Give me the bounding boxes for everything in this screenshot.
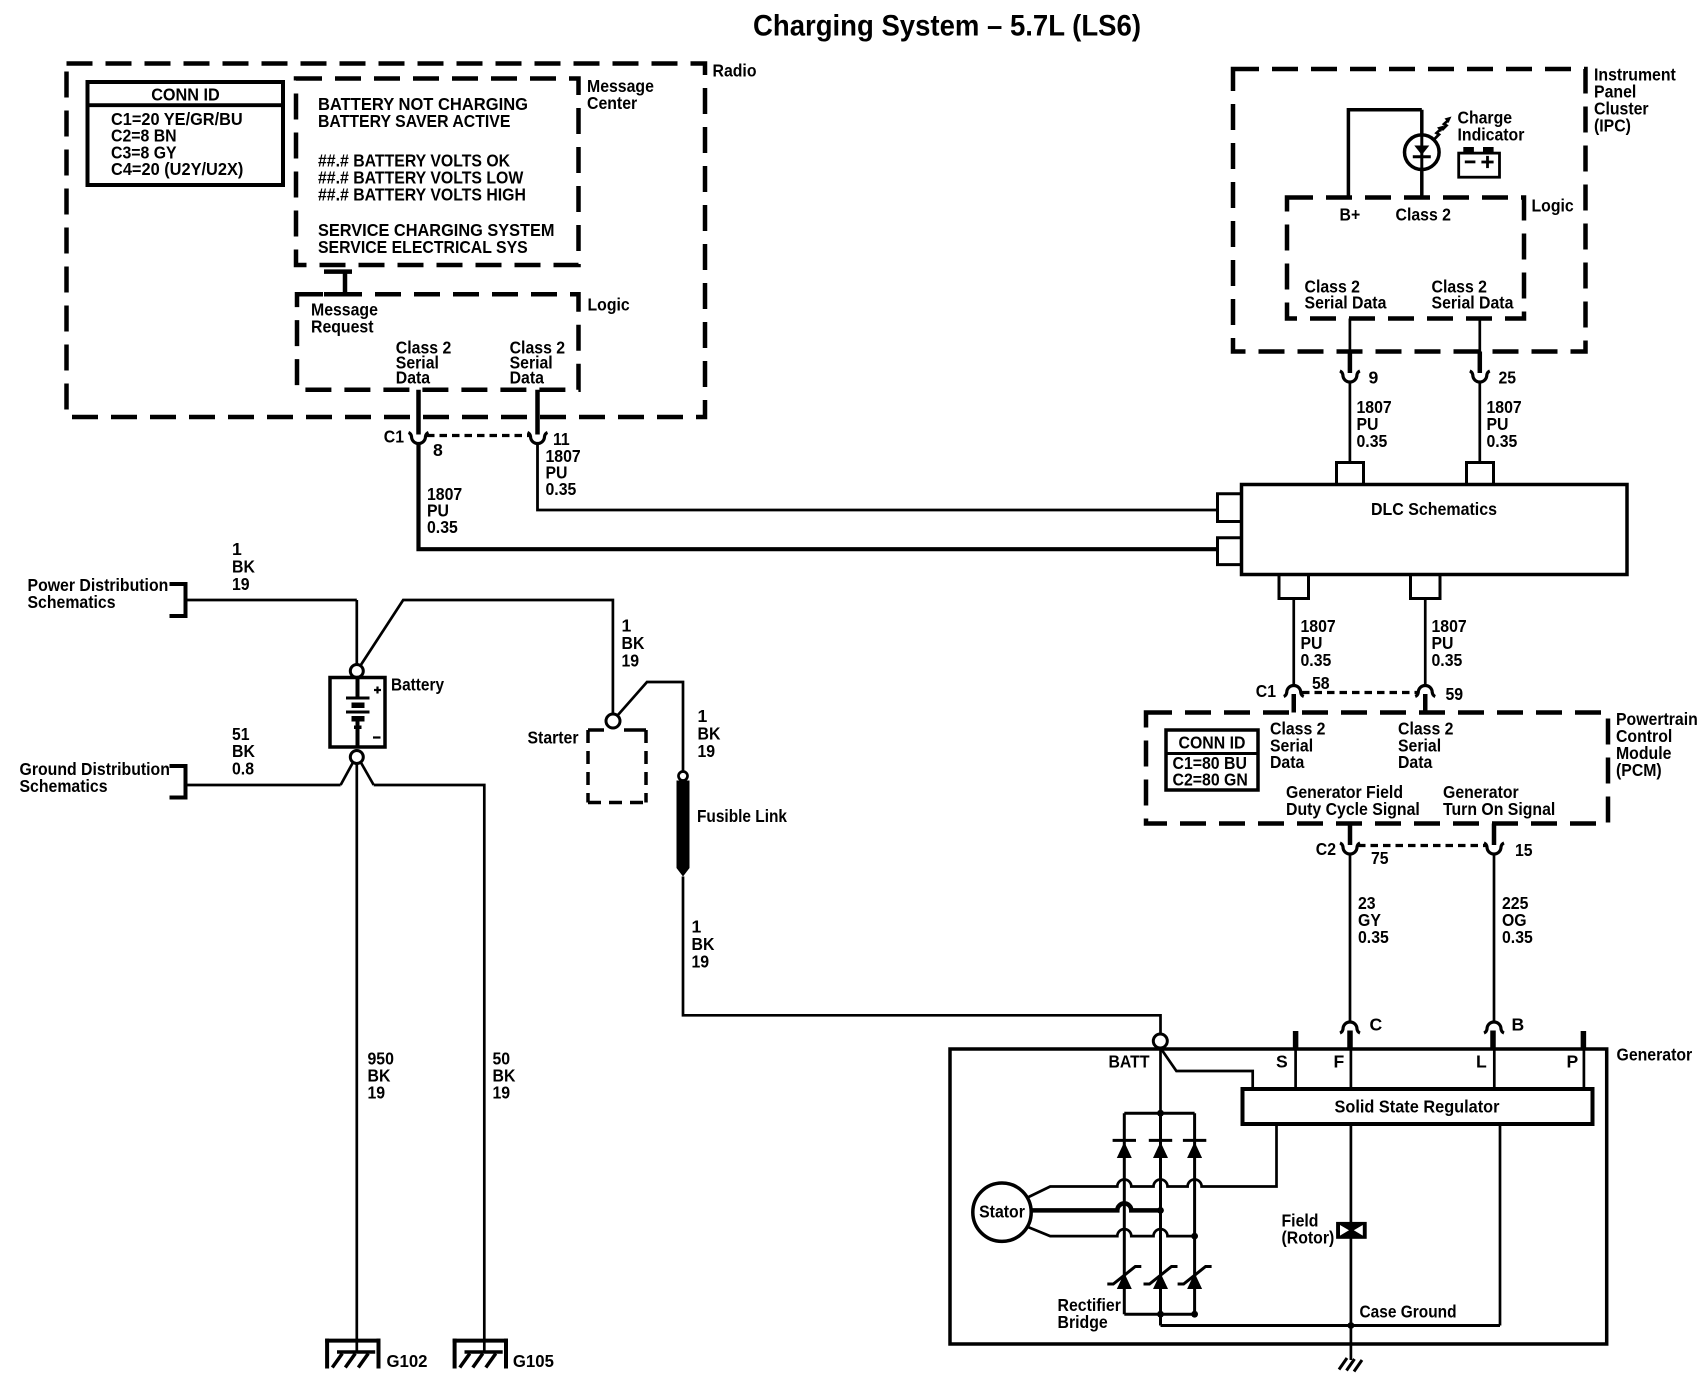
svg-text:C1: C1 — [384, 427, 404, 447]
svg-text:Indicator: Indicator — [1458, 125, 1525, 145]
svg-text:DLC Schematics: DLC Schematics — [1371, 499, 1497, 519]
svg-text:P: P — [1567, 1052, 1579, 1072]
svg-text:Data: Data — [510, 368, 544, 388]
svg-text:0.35: 0.35 — [1432, 650, 1463, 670]
svg-text:(PCM): (PCM) — [1616, 760, 1662, 780]
svg-text:Class 2: Class 2 — [1396, 205, 1452, 225]
svg-text:0.35: 0.35 — [546, 479, 577, 499]
svg-text:C: C — [1370, 1015, 1383, 1035]
svg-text:F: F — [1334, 1052, 1345, 1072]
svg-text:BATT: BATT — [1109, 1052, 1150, 1072]
svg-text:Logic: Logic — [1532, 196, 1574, 216]
svg-text:G102: G102 — [387, 1351, 428, 1371]
svg-text:0.35: 0.35 — [1358, 927, 1389, 947]
svg-text:8: 8 — [433, 440, 443, 460]
svg-text:B: B — [1512, 1015, 1525, 1035]
svg-text:S: S — [1276, 1052, 1288, 1072]
svg-text:0.35: 0.35 — [1357, 431, 1388, 451]
svg-text:Battery: Battery — [391, 675, 444, 695]
svg-text:19: 19 — [493, 1083, 511, 1103]
svg-text:B+: B+ — [1340, 205, 1361, 225]
svg-text:Serial Data: Serial Data — [1432, 293, 1514, 313]
svg-text:Schematics: Schematics — [28, 592, 116, 612]
svg-text:C4=20 (U2Y/U2X): C4=20 (U2Y/U2X) — [111, 159, 243, 179]
svg-text:Duty Cycle Signal: Duty Cycle Signal — [1286, 799, 1420, 819]
svg-text:25: 25 — [1499, 368, 1517, 388]
svg-text:Case Ground: Case Ground — [1360, 1302, 1457, 1322]
svg-text:19: 19 — [622, 651, 640, 671]
svg-text:59: 59 — [1446, 684, 1464, 704]
svg-text:Request: Request — [311, 317, 374, 337]
svg-text:19: 19 — [368, 1083, 386, 1103]
svg-text:C2=80 GN: C2=80 GN — [1173, 770, 1248, 790]
svg-text:Radio: Radio — [713, 61, 757, 81]
svg-text:58: 58 — [1312, 673, 1330, 693]
svg-text:Serial Data: Serial Data — [1305, 293, 1387, 313]
svg-text:75: 75 — [1371, 848, 1389, 868]
svg-text:0.35: 0.35 — [1301, 650, 1332, 670]
svg-text:CONN ID: CONN ID — [1179, 733, 1246, 753]
svg-text:19: 19 — [692, 952, 710, 972]
svg-text:19: 19 — [232, 574, 250, 594]
svg-text:SERVICE ELECTRICAL SYS: SERVICE ELECTRICAL SYS — [318, 237, 528, 257]
svg-text:Bridge: Bridge — [1058, 1312, 1108, 1332]
svg-text:0.35: 0.35 — [1502, 927, 1533, 947]
svg-text:CONN ID: CONN ID — [151, 85, 220, 105]
svg-text:C1: C1 — [1256, 681, 1276, 701]
svg-text:0.35: 0.35 — [427, 517, 458, 537]
svg-text:Data: Data — [1398, 752, 1432, 772]
svg-text:Turn On Signal: Turn On Signal — [1443, 799, 1555, 819]
svg-text:19: 19 — [698, 741, 716, 761]
svg-text:0.35: 0.35 — [1487, 431, 1518, 451]
svg-text:Generator: Generator — [1617, 1045, 1693, 1065]
svg-text:Starter: Starter — [528, 728, 579, 748]
svg-text:0.8: 0.8 — [232, 759, 254, 779]
svg-text:(IPC): (IPC) — [1594, 116, 1631, 136]
svg-text:Center: Center — [587, 93, 637, 113]
svg-text:9: 9 — [1369, 368, 1379, 388]
svg-text:15: 15 — [1515, 840, 1533, 860]
svg-text:G105: G105 — [513, 1351, 554, 1371]
svg-text:Charging System – 5.7L (LS6): Charging System – 5.7L (LS6) — [753, 10, 1141, 43]
svg-text:C2: C2 — [1316, 839, 1336, 859]
svg-text:Stator: Stator — [979, 1202, 1025, 1222]
svg-text:Schematics: Schematics — [20, 776, 108, 796]
svg-text:Logic: Logic — [588, 295, 630, 315]
svg-text:Data: Data — [1270, 752, 1304, 772]
svg-text:BATTERY SAVER ACTIVE: BATTERY SAVER ACTIVE — [318, 111, 511, 131]
svg-text:##.# BATTERY VOLTS HIGH: ##.# BATTERY VOLTS HIGH — [318, 185, 526, 205]
svg-text:Solid State Regulator: Solid State Regulator — [1335, 1097, 1500, 1117]
svg-text:Data: Data — [396, 368, 430, 388]
svg-text:L: L — [1476, 1052, 1487, 1072]
svg-text:(Rotor): (Rotor) — [1282, 1228, 1335, 1248]
svg-text:Fusible Link: Fusible Link — [697, 806, 787, 826]
